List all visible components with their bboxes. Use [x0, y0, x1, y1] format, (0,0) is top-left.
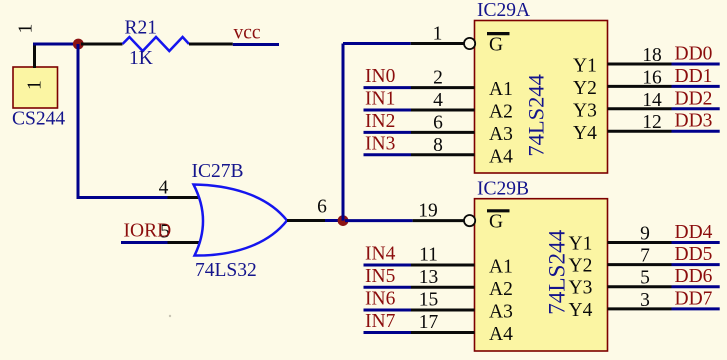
svg-text:19: 19 [418, 201, 438, 222]
svg-text:IN2: IN2 [365, 111, 395, 132]
wire DD0 net [672, 63, 720, 66]
IC29B pin 13 wire [411, 286, 475, 289]
svg-text:11: 11 [419, 245, 438, 266]
svg-text:A2: A2 [489, 102, 513, 123]
resistor-network/part CS244 body [13, 67, 58, 108]
IC29B pin 19 inversion bubble [464, 215, 475, 226]
IC29A pin 4 wire [411, 109, 475, 112]
IC29A pin 1 wire [411, 42, 465, 45]
svg-text:IN7: IN7 [365, 311, 396, 332]
svg-text:Y3: Y3 [573, 100, 597, 121]
svg-text:DD5: DD5 [675, 244, 713, 265]
IC29A pin 6 wire [411, 131, 475, 134]
svg-text:13: 13 [419, 267, 439, 288]
svg-text:A1: A1 [489, 79, 513, 100]
IC29B G overline [487, 209, 510, 212]
svg-text:A4: A4 [489, 146, 513, 167]
svg-text:IN6: IN6 [365, 289, 396, 310]
svg-text:Y1: Y1 [573, 56, 597, 77]
IC27B pin 5 wire [168, 241, 201, 244]
svg-text:R21: R21 [125, 18, 158, 39]
svg-text:DD1: DD1 [675, 66, 713, 87]
svg-text:IN4: IN4 [365, 244, 396, 265]
svg-text:IN1: IN1 [365, 89, 395, 110]
IC29A pin 18 wire [608, 63, 672, 66]
junction at R21/CS244 node [73, 39, 84, 50]
svg-text:A4: A4 [489, 324, 513, 345]
svg-text:8: 8 [433, 135, 443, 156]
svg-text:vcc: vcc [234, 23, 261, 44]
svg-text:7: 7 [640, 246, 650, 267]
wire DD3 net [672, 130, 720, 133]
wire DD4 net [672, 241, 720, 244]
resistor R21 zigzag body [123, 37, 190, 51]
wire horizontal to IC29A pin 1 [343, 42, 411, 45]
svg-text:2: 2 [433, 68, 443, 89]
svg-text:12: 12 [642, 112, 662, 133]
wire to vcc net [233, 43, 279, 46]
wire DD6 net [672, 285, 720, 288]
svg-text:A3: A3 [489, 124, 513, 145]
IC27B pin 4 wire [168, 196, 201, 199]
svg-text:Y4: Y4 [573, 123, 597, 144]
svg-text:A3: A3 [489, 302, 513, 323]
IC29A pin 8 wire [411, 153, 475, 156]
svg-text:DD0: DD0 [675, 44, 713, 65]
svg-text:IC27B: IC27B [192, 161, 244, 182]
wire IN5 net [364, 286, 412, 289]
wire IN6 net [364, 309, 412, 312]
wire DD1 net [672, 85, 720, 88]
svg-text:6: 6 [317, 197, 327, 218]
wire IN2 net [364, 131, 412, 134]
svg-text:IC29B: IC29B [477, 179, 529, 200]
wire IN7 net [364, 331, 412, 334]
svg-text:74LS32: 74LS32 [195, 260, 257, 281]
svg-text:4: 4 [159, 178, 169, 199]
IC29A pin 16 wire [608, 85, 672, 88]
IC29A pin 2 wire [411, 86, 475, 89]
IC29A pin 14 wire [608, 107, 672, 110]
svg-text:74LS244: 74LS244 [524, 74, 549, 157]
wire horizontal to OR gate pin 4 [78, 196, 168, 199]
svg-text:DD4: DD4 [675, 222, 713, 243]
svg-text:1K: 1K [129, 48, 153, 69]
svg-text:DD7: DD7 [675, 288, 713, 309]
wire junction to IC29B pin 19 [345, 219, 413, 222]
svg-text:IC29A: IC29A [477, 0, 530, 21]
IC29A body [475, 21, 608, 174]
wire DD7 net [672, 307, 720, 310]
svg-text:14: 14 [642, 90, 662, 111]
IC29B body [475, 199, 608, 351]
IC29A pin 1 inversion bubble [464, 38, 475, 49]
svg-text:1: 1 [25, 80, 46, 90]
IC29A pin 12 wire [608, 130, 672, 133]
wire OR output to junction [325, 219, 345, 222]
svg-text:Y4: Y4 [569, 300, 593, 321]
svg-text:Y2: Y2 [569, 256, 593, 277]
IC29B pin 11 wire [411, 264, 475, 267]
svg-text:DD2: DD2 [675, 88, 713, 109]
svg-text:CS244: CS244 [12, 109, 65, 130]
stray mark [169, 315, 171, 317]
svg-text:1: 1 [16, 24, 37, 34]
IC29B pin 19 wire [413, 219, 465, 222]
svg-text:15: 15 [419, 290, 439, 311]
IC29A G overline [487, 32, 510, 35]
svg-text:DD6: DD6 [675, 266, 713, 287]
svg-text:16: 16 [642, 67, 662, 88]
CS244 pin 1 (vertical pin) [33, 44, 36, 68]
wire IN4 net [364, 264, 412, 267]
IC29B pin 3 wire [608, 307, 672, 310]
IC29B pin 17 wire [411, 331, 475, 334]
wire IN3 net [364, 153, 412, 156]
svg-text:4: 4 [433, 90, 443, 111]
R21 left pin wire [81, 43, 123, 46]
svg-text:A2: A2 [489, 279, 513, 300]
svg-text:IORD: IORD [124, 221, 172, 242]
wire vertical trunk down to OR gate input [77, 44, 80, 199]
svg-text:DD3: DD3 [675, 111, 713, 132]
wire IN0 net [364, 86, 412, 89]
wire vertical trunk up to IC29A G [342, 44, 345, 221]
svg-text:G: G [489, 212, 503, 233]
IC29B pin 15 wire [411, 309, 475, 312]
svg-text:3: 3 [640, 290, 650, 311]
svg-text:5: 5 [640, 268, 650, 289]
svg-text:74LS244: 74LS244 [545, 229, 571, 314]
svg-text:Y3: Y3 [569, 278, 593, 299]
wire CS244 to junction [33, 43, 75, 46]
op-gate IC27B OR-gate body [194, 185, 288, 256]
wire DD2 net [672, 107, 720, 110]
IC27B pin 6 output wire [287, 219, 325, 222]
IC29B pin 9 wire [608, 241, 672, 244]
junction at OR output node [338, 215, 349, 226]
svg-text:IN3: IN3 [365, 133, 395, 154]
svg-text:A1: A1 [489, 257, 513, 278]
svg-text:Y1: Y1 [569, 234, 593, 255]
svg-text:6: 6 [433, 112, 443, 133]
wire IORD net [121, 241, 168, 244]
IC29B pin 7 wire [608, 263, 672, 266]
svg-text:17: 17 [419, 312, 439, 333]
svg-text:Y2: Y2 [573, 78, 597, 99]
svg-text:G: G [489, 34, 503, 55]
R21 right pin wire [189, 43, 233, 46]
svg-text:9: 9 [640, 224, 650, 245]
IC29B pin 5 wire [608, 285, 672, 288]
wire DD5 net [672, 263, 720, 266]
svg-text:IN0: IN0 [365, 66, 395, 87]
svg-text:1: 1 [433, 24, 443, 45]
svg-text:18: 18 [642, 45, 662, 66]
wire IN1 net [364, 109, 412, 112]
svg-text:IN5: IN5 [365, 266, 395, 287]
